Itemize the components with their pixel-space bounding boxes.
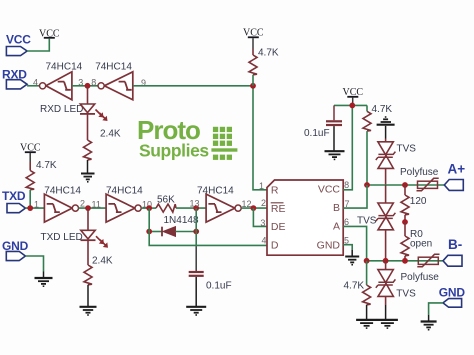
tvs D3 TVS (mid) (357, 185, 395, 261)
junction 120 / R0 (402, 219, 408, 225)
wire GND right to ground (429, 303, 443, 315)
svg-text:74HC14: 74HC14 (197, 186, 234, 197)
svg-text:4.7K: 4.7K (258, 48, 279, 59)
svg-text:A: A (333, 221, 340, 233)
ground (pin5) (345, 257, 359, 265)
svg-text:4: 4 (33, 78, 38, 88)
resistor R9 4.7K (B pulldown) (344, 261, 371, 320)
svg-text:open: open (410, 239, 432, 250)
svg-text:4.7K: 4.7K (372, 104, 393, 115)
inverter U1A 74HC14 (RXD input gate) (91, 62, 146, 100)
junction A rail left (364, 182, 370, 188)
svg-text:6: 6 (344, 217, 349, 227)
junction B rail R0 (402, 258, 408, 264)
wire gate3 to node (72, 85, 98, 87)
wire gate12 to RE (241, 207, 267, 209)
resistor R1 4.7K (R pullup) (249, 48, 279, 86)
wire node12 to DE (253, 208, 267, 226)
junction B rail tvs (383, 258, 389, 264)
junction diode left (146, 229, 152, 235)
connector J4 GND (2, 239, 29, 261)
svg-text:Polyfuse: Polyfuse (401, 272, 440, 283)
wire pin5 GND (343, 245, 352, 250)
power VCC (top center) (243, 28, 264, 50)
connector J6 B- (443, 237, 462, 266)
ground (C1) (186, 307, 206, 315)
svg-text:GND: GND (317, 239, 341, 251)
junction A rail 120 (402, 182, 408, 188)
wire VCC connector to VCC rail (27, 39, 49, 51)
svg-text:TVS: TVS (397, 144, 417, 155)
ic U2 RS485 transceiver (259, 180, 350, 255)
svg-text:VCC: VCC (6, 33, 31, 47)
svg-text:DE: DE (271, 221, 286, 233)
polyfuse F2 (401, 254, 440, 282)
ground (C2) (325, 151, 345, 159)
svg-text:B: B (333, 202, 340, 214)
svg-text:2.4K: 2.4K (92, 256, 113, 267)
inverter U1B 74HC14 (RXD output gate) (33, 62, 83, 100)
wire D line (149, 232, 267, 246)
tvs D2 TVS (376, 139, 416, 186)
svg-text:4.7K: 4.7K (344, 281, 365, 292)
resistor R4 56K (156, 194, 176, 212)
svg-text:0.1uF: 0.1uF (304, 128, 330, 139)
wire RXD connector to gate output (27, 85, 39, 87)
ground (RXD led) (81, 174, 95, 182)
junction node 10 (146, 205, 152, 211)
svg-text:R: R (271, 184, 279, 196)
power VCC (left mid) (20, 143, 41, 163)
wire R output rail to chip pin1 (133, 86, 267, 190)
connector J1 VCC (6, 33, 31, 56)
svg-text:Supplies: Supplies (139, 141, 209, 161)
svg-text:56K: 56K (157, 194, 175, 205)
svg-text:74HC14: 74HC14 (46, 62, 83, 73)
junction B rail left (364, 258, 370, 264)
inverter U1C 74HC14 (34, 186, 85, 222)
svg-text:74HC14: 74HC14 (106, 186, 143, 197)
svg-text:1N4148: 1N4148 (164, 215, 199, 226)
svg-text:RE: RE (271, 203, 286, 215)
junction VCC rail (349, 103, 355, 109)
power VCC (top left) (39, 29, 60, 40)
ground (R9) (356, 320, 377, 328)
resistor R5 2.4K (TXD led) (84, 256, 113, 307)
wire TXD to gate input (25, 207, 44, 209)
resistor R7 120 (401, 185, 427, 222)
ground (right connector) (421, 322, 437, 330)
svg-text:11: 11 (92, 200, 101, 210)
svg-text:TVS: TVS (396, 289, 416, 300)
led LED2 TXD LED (41, 208, 109, 265)
power VCC (right) (343, 87, 364, 105)
diode D1 1N4148 (152, 215, 199, 236)
wire node10 (141, 207, 156, 209)
inverter U1D 74HC14 (92, 186, 153, 222)
junction diode right (193, 229, 199, 235)
svg-text:RXD LED: RXD LED (40, 104, 83, 115)
connector J5 A+ (444, 162, 465, 191)
resistor R6 4.7K (A pullup) (363, 104, 392, 185)
connector J2 RXD (2, 68, 27, 89)
svg-text:B-: B- (448, 237, 462, 252)
svg-text:0.1uF: 0.1uF (206, 281, 232, 292)
svg-text:4: 4 (262, 236, 267, 246)
svg-text:1: 1 (34, 200, 39, 210)
svg-text:A+: A+ (448, 162, 466, 177)
junction node 12 (251, 205, 257, 211)
logo Proto Supplies (137, 115, 237, 161)
junction node 13 (193, 205, 199, 211)
wire 56K to node13 (176, 207, 206, 209)
resistor R2 2.4K (RXD led) (84, 129, 121, 174)
svg-text:VCC: VCC (318, 184, 341, 196)
ground (left connector) (35, 278, 53, 286)
capacitor C2 0.1uF (bypass) (304, 105, 342, 150)
svg-text:TVS: TVS (357, 216, 377, 227)
svg-text:4.7K: 4.7K (36, 160, 57, 171)
wire B rail (367, 260, 443, 262)
wire GND connector to ground (25, 256, 43, 272)
wire pin6 A riser (343, 226, 366, 260)
ground (TXD led) (80, 307, 97, 315)
svg-text:8: 8 (344, 180, 349, 190)
svg-text:8: 8 (91, 77, 96, 87)
inverter U1E 74HC14 (190, 186, 252, 222)
resistor R8 R0 open (401, 222, 432, 261)
wire node10 down to diode (148, 208, 150, 231)
svg-text:TXD LED: TXD LED (41, 232, 83, 243)
svg-text:D: D (271, 240, 279, 252)
junction TXD node (27, 205, 33, 211)
connector J7 GND (right) (439, 286, 466, 308)
led LED1 RXD LED (40, 86, 108, 140)
polyfuse F1 (400, 167, 439, 191)
ground (TVS bottom) (377, 320, 398, 328)
tvs D4 TVS (bottom) (376, 261, 416, 320)
svg-text:74HC14: 74HC14 (44, 186, 81, 197)
svg-text:2: 2 (80, 198, 85, 208)
svg-text:3: 3 (260, 218, 265, 228)
junction node 2 (85, 205, 91, 211)
ground (inverted, TVS top) (377, 117, 395, 139)
svg-text:1: 1 (259, 181, 264, 191)
connector J3 TXD (2, 189, 26, 213)
svg-text:74HC14: 74HC14 (95, 62, 132, 73)
wire pin8 VCC riser (343, 105, 352, 189)
capacitor C1 0.1uF (RC delay) (189, 232, 232, 307)
svg-text:2: 2 (261, 198, 266, 208)
wire node2 to gate input (79, 207, 107, 209)
junction node R rail / pullup (250, 83, 256, 89)
svg-text:120: 120 (410, 196, 427, 207)
svg-text:13: 13 (190, 198, 200, 208)
svg-text:Polyfuse: Polyfuse (400, 167, 439, 178)
svg-text:TXD: TXD (2, 189, 26, 203)
wire node13 down to diode (195, 208, 197, 231)
junction node 3 (85, 83, 91, 89)
wire VCC rail horizontal (334, 104, 367, 106)
wire A rail (367, 184, 444, 186)
wire pin7 B riser (343, 185, 367, 208)
svg-text:GND: GND (439, 286, 466, 300)
svg-text:2.4K: 2.4K (100, 129, 121, 140)
resistor R3 4.7K (TXD pullup) (26, 160, 57, 208)
